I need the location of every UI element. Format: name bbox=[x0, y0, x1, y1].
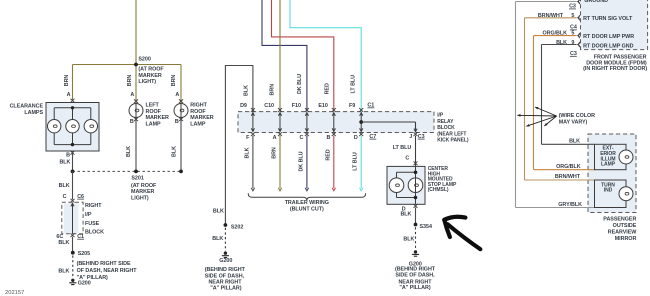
svg-text:(BEHIND RIGHT: (BEHIND RIGHT bbox=[205, 267, 246, 273]
svg-text:(NEAR LEFT: (NEAR LEFT bbox=[437, 131, 466, 137]
svg-text:(AT ROOF: (AT ROOF bbox=[138, 67, 164, 73]
svg-text:GRY/BLK: GRY/BLK bbox=[558, 202, 582, 208]
svg-text:(AT ROOF: (AT ROOF bbox=[131, 183, 157, 189]
svg-text:(CHMSL): (CHMSL) bbox=[428, 187, 449, 193]
svg-text:LAMP: LAMP bbox=[601, 162, 616, 168]
svg-text:BLK: BLK bbox=[212, 236, 223, 242]
svg-text:MIRROR: MIRROR bbox=[615, 236, 637, 242]
svg-text:OUTSIDE: OUTSIDE bbox=[613, 223, 637, 229]
svg-text:(BEHIND RIGHT SIDE: (BEHIND RIGHT SIDE bbox=[77, 261, 131, 267]
svg-text:LIGHT): LIGHT) bbox=[131, 195, 149, 201]
svg-text:BLK: BLK bbox=[58, 240, 69, 246]
svg-text:BRN: BRN bbox=[64, 75, 70, 87]
svg-text:RT DOOR LMP GND: RT DOOR LMP GND bbox=[583, 44, 634, 50]
svg-text:BLOCK: BLOCK bbox=[437, 125, 455, 131]
svg-text:G200: G200 bbox=[219, 258, 232, 264]
svg-text:BLK: BLK bbox=[59, 160, 70, 166]
svg-text:LIGHT): LIGHT) bbox=[138, 79, 156, 85]
svg-text:RIGHT: RIGHT bbox=[190, 103, 207, 109]
svg-text:LAMP: LAMP bbox=[146, 121, 162, 127]
svg-text:A: A bbox=[67, 92, 71, 98]
svg-text:D: D bbox=[354, 135, 358, 141]
svg-text:BRN: BRN bbox=[270, 84, 276, 96]
svg-text:MAY VARY): MAY VARY) bbox=[559, 119, 588, 125]
svg-text:BLK: BLK bbox=[58, 269, 69, 275]
svg-text:F9: F9 bbox=[349, 103, 355, 109]
svg-text:B: B bbox=[130, 119, 134, 125]
svg-text:OF DASH, NEAR RIGHT: OF DASH, NEAR RIGHT bbox=[77, 268, 138, 274]
svg-text:FUSE: FUSE bbox=[85, 221, 100, 227]
svg-text:BLK: BLK bbox=[59, 183, 70, 189]
svg-text:A: A bbox=[130, 92, 134, 98]
svg-text:5: 5 bbox=[571, 31, 574, 37]
svg-text:ROOF: ROOF bbox=[146, 109, 162, 115]
svg-text:BLK: BLK bbox=[244, 147, 250, 158]
svg-text:BLK: BLK bbox=[213, 208, 224, 214]
svg-text:LAMPS: LAMPS bbox=[24, 110, 43, 116]
svg-text:RT DOOR LMP PWR: RT DOOR LMP PWR bbox=[583, 34, 634, 40]
svg-text:RELAY: RELAY bbox=[437, 119, 454, 125]
svg-text:RED: RED bbox=[325, 149, 331, 160]
svg-text:C10: C10 bbox=[264, 103, 274, 109]
svg-text:BLK: BLK bbox=[556, 40, 567, 46]
svg-text:RED: RED bbox=[325, 83, 331, 94]
svg-text:G200: G200 bbox=[78, 281, 91, 287]
svg-text:202157: 202157 bbox=[5, 290, 24, 296]
svg-text:5: 5 bbox=[571, 13, 574, 19]
svg-text:I/P: I/P bbox=[437, 113, 444, 119]
svg-text:F10: F10 bbox=[292, 103, 301, 109]
svg-text:E10: E10 bbox=[318, 103, 327, 109]
svg-text:MARKER: MARKER bbox=[131, 189, 155, 195]
svg-text:"A" PILLAR): "A" PILLAR) bbox=[210, 286, 241, 292]
svg-text:ROOF: ROOF bbox=[190, 109, 206, 115]
svg-text:B: B bbox=[66, 153, 70, 159]
svg-text:BLOCK: BLOCK bbox=[85, 230, 104, 236]
svg-text:BLK: BLK bbox=[403, 236, 414, 242]
svg-text:CLEARANCE: CLEARANCE bbox=[10, 104, 44, 110]
svg-text:S354: S354 bbox=[420, 224, 432, 230]
svg-text:MARKER: MARKER bbox=[146, 115, 170, 121]
svg-text:(WIRE COLOR: (WIRE COLOR bbox=[559, 113, 595, 119]
svg-text:BLK: BLK bbox=[126, 146, 132, 157]
svg-text:ORG/BLK: ORG/BLK bbox=[542, 30, 567, 36]
svg-text:GROUND: GROUND bbox=[584, 0, 608, 4]
svg-text:C: C bbox=[300, 135, 304, 141]
svg-text:LT BLU: LT BLU bbox=[393, 145, 412, 151]
svg-text:RIGHT: RIGHT bbox=[85, 203, 102, 209]
svg-text:S200: S200 bbox=[138, 57, 150, 63]
svg-text:MARKER: MARKER bbox=[138, 73, 162, 79]
svg-text:NEAR RIGHT: NEAR RIGHT bbox=[208, 280, 242, 286]
svg-text:SIDE OF DASH,: SIDE OF DASH, bbox=[205, 273, 245, 279]
svg-text:BLK: BLK bbox=[569, 138, 580, 144]
svg-text:9: 9 bbox=[571, 40, 574, 46]
svg-text:BLK: BLK bbox=[244, 85, 250, 96]
svg-text:BRN/WHT: BRN/WHT bbox=[555, 174, 581, 180]
svg-text:IND: IND bbox=[604, 187, 613, 193]
svg-text:LT BLU: LT BLU bbox=[350, 75, 356, 94]
svg-text:REARVIEW: REARVIEW bbox=[608, 230, 638, 236]
svg-text:"A" PILLAR): "A" PILLAR) bbox=[399, 285, 430, 291]
svg-text:A: A bbox=[273, 135, 277, 141]
svg-text:S201: S201 bbox=[131, 176, 143, 182]
svg-text:LEFT: LEFT bbox=[146, 103, 160, 109]
svg-text:J: J bbox=[409, 134, 412, 140]
svg-text:A: A bbox=[175, 92, 179, 98]
svg-text:RT TURN SIG VOLT: RT TURN SIG VOLT bbox=[583, 16, 633, 22]
svg-text:SIDE OF DASH,: SIDE OF DASH, bbox=[395, 273, 435, 279]
svg-text:KICK PANEL): KICK PANEL) bbox=[437, 138, 469, 144]
svg-text:B: B bbox=[175, 119, 179, 125]
svg-text:ORG/BLK: ORG/BLK bbox=[556, 164, 581, 170]
svg-text:B: B bbox=[326, 135, 330, 141]
svg-text:MARKER: MARKER bbox=[190, 115, 214, 121]
svg-text:BLK: BLK bbox=[400, 212, 411, 218]
svg-text:BRN: BRN bbox=[272, 147, 278, 159]
svg-text:C: C bbox=[63, 194, 67, 200]
svg-text:C: C bbox=[405, 156, 409, 162]
svg-text:TRAILER WIRING: TRAILER WIRING bbox=[285, 200, 329, 206]
svg-text:(BLUNT CUT): (BLUNT CUT) bbox=[290, 207, 324, 213]
svg-text:S202: S202 bbox=[231, 224, 243, 230]
svg-text:BLK: BLK bbox=[172, 146, 178, 157]
svg-text:LAMP: LAMP bbox=[190, 121, 206, 127]
svg-text:DK BLU: DK BLU bbox=[298, 151, 304, 171]
svg-text:DK BLU: DK BLU bbox=[297, 74, 303, 94]
svg-text:LT BLU: LT BLU bbox=[353, 152, 359, 171]
svg-text:(IN RIGHT FRONT DOOR): (IN RIGHT FRONT DOOR) bbox=[583, 66, 647, 72]
svg-text:BRN/WHT: BRN/WHT bbox=[538, 13, 564, 19]
svg-text:PASSENGER: PASSENGER bbox=[603, 216, 636, 222]
svg-text:BRN: BRN bbox=[171, 75, 177, 87]
svg-text:BRN: BRN bbox=[127, 75, 133, 87]
svg-text:D9: D9 bbox=[240, 103, 247, 109]
svg-text:S205: S205 bbox=[78, 251, 90, 257]
svg-text:I/P: I/P bbox=[85, 212, 92, 218]
